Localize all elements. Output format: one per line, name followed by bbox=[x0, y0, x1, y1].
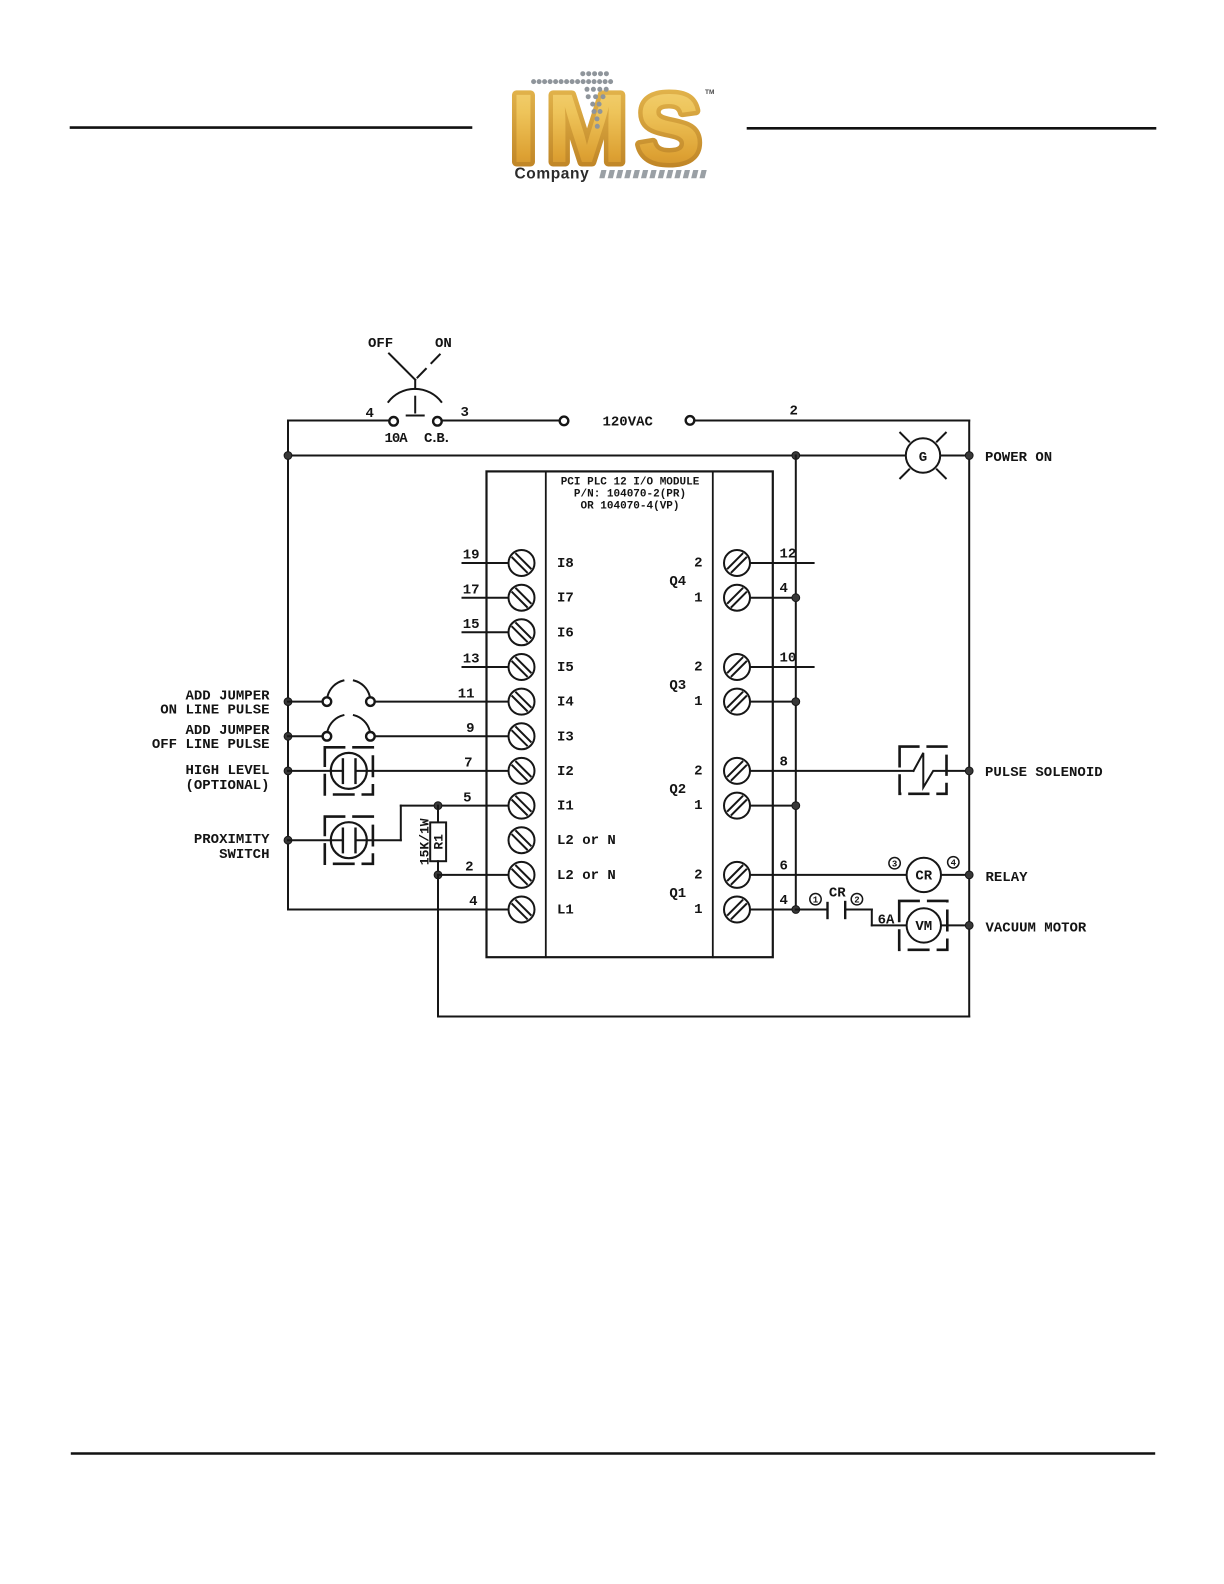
svg-text:TM: TM bbox=[705, 89, 714, 96]
label Q3 pins bbox=[669, 660, 702, 711]
wire middle rail bbox=[795, 456, 797, 910]
svg-text:6A: 6A bbox=[878, 913, 895, 929]
wire stub input row 2 pin 15 bbox=[463, 617, 509, 633]
svg-text:R1: R1 bbox=[432, 834, 447, 850]
svg-text:VM: VM bbox=[915, 919, 932, 935]
wire output Q3-1 bbox=[750, 701, 796, 703]
terminal screw right row 3 bbox=[724, 654, 750, 680]
svg-text:1: 1 bbox=[694, 590, 702, 606]
wire stub input row 3 pin 13 bbox=[463, 652, 509, 668]
svg-text:8: 8 bbox=[780, 754, 788, 770]
svg-text:Q2: Q2 bbox=[669, 782, 686, 798]
svg-text:3: 3 bbox=[461, 405, 469, 421]
high level sensor switch (optional) bbox=[288, 747, 509, 794]
pulse solenoid bbox=[900, 747, 970, 794]
IMS Company logo bbox=[510, 71, 714, 183]
svg-text:15: 15 bbox=[463, 617, 480, 633]
terminal 3 of breaker bbox=[433, 417, 442, 426]
svg-text:19: 19 bbox=[463, 548, 480, 564]
terminal screw left row 5 (I3) bbox=[509, 723, 574, 749]
svg-text:PROXIMITY: PROXIMITY bbox=[194, 832, 270, 848]
terminal screw right row 6 bbox=[724, 758, 750, 784]
svg-text:17: 17 bbox=[463, 582, 480, 598]
wire output Q3-2 pin 10 bbox=[750, 651, 814, 668]
label ADD JUMPER OFF LINE PULSE bbox=[152, 723, 270, 753]
svg-text:12: 12 bbox=[780, 547, 797, 563]
terminal screw right row 9 bbox=[724, 862, 750, 888]
junction R1 top bbox=[434, 802, 442, 810]
svg-text:2: 2 bbox=[465, 860, 473, 876]
svg-text:2: 2 bbox=[694, 660, 702, 676]
junction middle rail / line2 bbox=[792, 452, 800, 460]
resistor R1 15K/1W bbox=[418, 806, 447, 875]
svg-text:1: 1 bbox=[694, 694, 702, 710]
wire second power line bbox=[288, 455, 969, 457]
svg-text:3: 3 bbox=[892, 860, 897, 870]
footer rule bbox=[72, 1452, 1154, 1454]
junction left rail jumper OFF LINE PULSE bbox=[284, 732, 292, 740]
wire output Q1-2 pin 6 bbox=[750, 858, 907, 875]
header rule right bbox=[748, 127, 1155, 130]
svg-text:PCI PLC 12 I/O MODULE: PCI PLC 12 I/O MODULE bbox=[561, 476, 700, 488]
wire proximity to I1 bbox=[400, 806, 402, 841]
svg-text:4: 4 bbox=[780, 581, 788, 597]
label HIGH LEVEL (OPTIONAL) bbox=[185, 763, 269, 794]
terminal screw left row 3 (I5) bbox=[509, 654, 574, 680]
junction Q1-1 / middle rail bbox=[792, 906, 800, 914]
junction left rail / line2 bbox=[284, 452, 292, 460]
selector switch S1 OFF/ON bbox=[368, 336, 452, 416]
wire neutral return bbox=[438, 875, 969, 1017]
svg-text:RELAY: RELAY bbox=[986, 870, 1029, 886]
terminal screw right row 1 bbox=[724, 585, 750, 611]
junction left rail HIGH LEVEL bbox=[284, 767, 292, 775]
junction left rail PROXIMITY bbox=[284, 836, 292, 844]
label Q1 pins bbox=[669, 868, 702, 919]
svg-text:HIGH LEVEL: HIGH LEVEL bbox=[185, 763, 269, 779]
svg-text:2: 2 bbox=[694, 868, 702, 884]
svg-text:OFF: OFF bbox=[368, 336, 393, 352]
svg-text:I6: I6 bbox=[557, 625, 574, 641]
svg-text:I7: I7 bbox=[557, 591, 574, 607]
svg-text:15K/1W: 15K/1W bbox=[418, 818, 433, 865]
svg-text:Q1: Q1 bbox=[669, 886, 686, 902]
junction Q2-1 / middle rail bbox=[792, 802, 800, 810]
svg-text:I2: I2 bbox=[557, 764, 574, 780]
svg-text:I4: I4 bbox=[557, 695, 574, 711]
svg-text:(OPTIONAL): (OPTIONAL) bbox=[185, 778, 269, 794]
svg-text:POWER ON: POWER ON bbox=[985, 450, 1052, 466]
junction R1 bottom bbox=[434, 871, 442, 879]
contact CR terminals 1-2 bbox=[796, 886, 863, 918]
junction right rail / line2 bbox=[965, 452, 973, 460]
svg-text:4: 4 bbox=[469, 894, 477, 910]
wire stub input row 0 pin 19 bbox=[463, 548, 509, 564]
terminal screw right row 4 bbox=[724, 689, 750, 715]
svg-text:2: 2 bbox=[694, 764, 702, 780]
wire breaker to 120VAC bbox=[442, 420, 560, 422]
wire contact to vacuum motor, fuse 6A bbox=[845, 910, 906, 929]
label Q2 pins bbox=[669, 764, 702, 815]
svg-text:OR 104070-4(VP): OR 104070-4(VP) bbox=[580, 500, 679, 512]
terminal screw left row 8 (L2 or N) bbox=[509, 827, 616, 853]
wire output Q4-1 pin 4 bbox=[750, 581, 796, 598]
junction Q4-1 / middle rail bbox=[792, 594, 800, 602]
svg-text:11: 11 bbox=[458, 686, 475, 702]
label ADD JUMPER ON LINE PULSE bbox=[160, 688, 270, 718]
jumper terminals OFF LINE PULSE (pin 9) bbox=[288, 715, 509, 740]
svg-text:1: 1 bbox=[813, 896, 819, 906]
svg-text:4: 4 bbox=[951, 859, 957, 869]
terminal screw left row 6 (I2) bbox=[509, 758, 574, 784]
junction vacuum motor / right rail bbox=[965, 922, 973, 930]
svg-text:2: 2 bbox=[790, 404, 798, 420]
terminal screw right row 10 bbox=[724, 897, 750, 923]
terminal screw left row 1 (I7) bbox=[509, 585, 574, 611]
svg-text:ON: ON bbox=[435, 336, 452, 352]
svg-text:Q3: Q3 bbox=[669, 678, 686, 694]
svg-text:L2 or N: L2 or N bbox=[557, 833, 616, 849]
svg-text:I8: I8 bbox=[557, 556, 574, 572]
vacuum motor VM bbox=[899, 901, 969, 950]
svg-text:120VAC: 120VAC bbox=[603, 415, 654, 431]
terminal screw left row 9 (L2 or N) bbox=[509, 862, 616, 888]
wire output Q1-1 pin 4 bbox=[750, 893, 796, 910]
svg-text:PULSE SOLENOID: PULSE SOLENOID bbox=[985, 765, 1103, 781]
wire right rail bbox=[968, 421, 970, 1017]
terminal screw left row 0 (I8) bbox=[509, 550, 574, 576]
junction pulse solenoid / right rail bbox=[965, 767, 973, 775]
svg-text:SWITCH: SWITCH bbox=[219, 847, 269, 863]
label PULSE SOLENOID bbox=[985, 765, 1103, 781]
svg-text:5: 5 bbox=[463, 790, 471, 806]
circuit breaker CB 10A labels bbox=[366, 405, 469, 447]
svg-text:I3: I3 bbox=[557, 729, 574, 745]
label PROXIMITY SWITCH bbox=[194, 832, 270, 863]
120VAC source terminal left bbox=[560, 417, 569, 426]
junction relay / right rail bbox=[965, 871, 973, 879]
lamp G POWER ON bbox=[900, 433, 946, 479]
svg-text:7: 7 bbox=[464, 756, 472, 772]
svg-text:C.B.: C.B. bbox=[424, 431, 449, 447]
wire L2 or N pin 2 bbox=[438, 860, 509, 876]
svg-text:4: 4 bbox=[780, 893, 788, 909]
svg-text:2: 2 bbox=[854, 896, 859, 906]
svg-text:Company: Company bbox=[515, 166, 590, 183]
svg-text:10A: 10A bbox=[385, 431, 409, 447]
svg-text:I1: I1 bbox=[557, 799, 574, 815]
svg-text:2: 2 bbox=[694, 556, 702, 572]
junction left rail jumper ON LINE PULSE bbox=[284, 698, 292, 706]
svg-text:P/N: 104070-2(PR): P/N: 104070-2(PR) bbox=[574, 488, 686, 500]
terminal screw left row 10 (L1) bbox=[509, 897, 574, 923]
svg-text:CR: CR bbox=[915, 869, 932, 885]
wire top power line left segment bbox=[288, 420, 389, 422]
svg-text:L2 or N: L2 or N bbox=[557, 868, 616, 884]
svg-text:VACUUM MOTOR: VACUUM MOTOR bbox=[986, 921, 1087, 937]
wire L1 pin 4 bbox=[288, 894, 509, 910]
node 120VAC bbox=[603, 415, 654, 431]
terminal screw left row 2 (I6) bbox=[509, 619, 574, 645]
svg-text:9: 9 bbox=[466, 721, 474, 737]
proximity switch sensor bbox=[288, 817, 401, 864]
terminal 4 of breaker bbox=[389, 417, 398, 426]
svg-text:6: 6 bbox=[780, 858, 788, 874]
120VAC source terminal right bbox=[686, 416, 695, 425]
relay coil CR bbox=[889, 857, 969, 893]
svg-text:13: 13 bbox=[463, 652, 480, 668]
wire output Q4-2 pin 12 bbox=[750, 547, 814, 564]
svg-text:OFF LINE PULSE: OFF LINE PULSE bbox=[152, 737, 270, 753]
label POWER ON bbox=[985, 450, 1052, 466]
wire output Q2-2 pin 8 bbox=[750, 754, 914, 771]
svg-text:I5: I5 bbox=[557, 660, 574, 676]
svg-text:1: 1 bbox=[694, 798, 702, 814]
terminal screw right row 7 bbox=[724, 793, 750, 819]
wire stub input row 1 pin 17 bbox=[463, 582, 509, 598]
terminal screw left row 4 (I4) bbox=[509, 689, 574, 715]
svg-text:10: 10 bbox=[780, 651, 797, 667]
jumper terminals ON LINE PULSE (pin 11) bbox=[288, 681, 509, 706]
svg-text:Q4: Q4 bbox=[669, 574, 686, 590]
junction Q3-1 / middle rail bbox=[792, 698, 800, 706]
label VACUUM MOTOR bbox=[986, 921, 1087, 937]
wire I1 pin 5 bbox=[401, 790, 509, 806]
svg-text:L1: L1 bbox=[557, 903, 574, 919]
header rule left bbox=[71, 126, 471, 129]
svg-text:CR: CR bbox=[829, 886, 846, 902]
label RELAY bbox=[986, 870, 1029, 886]
svg-text:ON LINE PULSE: ON LINE PULSE bbox=[160, 703, 269, 719]
PLC module U1 box bbox=[487, 471, 773, 957]
terminal screw right row 0 bbox=[724, 550, 750, 576]
wire left rail bbox=[287, 421, 289, 910]
wire 120VAC to right rail, node 2 bbox=[694, 404, 969, 421]
svg-text:1: 1 bbox=[694, 902, 702, 918]
label Q4 pins bbox=[669, 556, 702, 607]
terminal screw left row 7 (I1) bbox=[509, 793, 574, 819]
wire output Q2-1 bbox=[750, 805, 796, 807]
svg-text:G: G bbox=[919, 450, 927, 466]
